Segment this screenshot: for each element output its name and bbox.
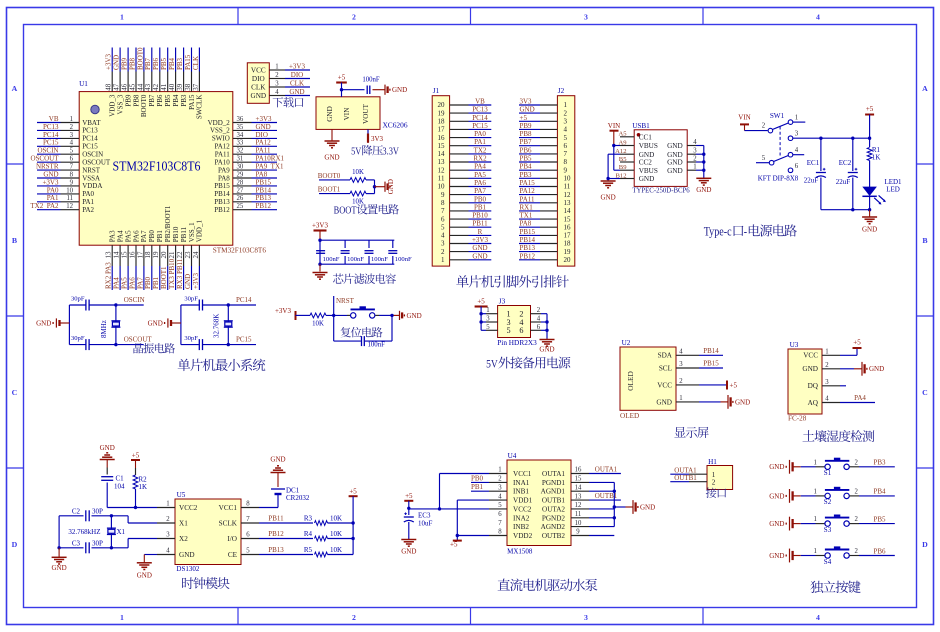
svg-text:OSCIN: OSCIN — [37, 147, 58, 155]
svg-text:2: 2 — [275, 72, 279, 79]
svg-text:GND: GND — [802, 365, 818, 373]
svg-text:VBAT: VBAT — [82, 119, 101, 127]
svg-text:U4: U4 — [508, 452, 517, 460]
svg-text:1: 1 — [275, 64, 278, 71]
svg-text:U5: U5 — [177, 491, 186, 499]
svg-text:13: 13 — [575, 493, 582, 500]
svg-text:PA4: PA4 — [116, 230, 124, 242]
svg-text:PB1: PB1 — [471, 483, 484, 491]
svg-text:2: 2 — [679, 378, 683, 385]
svg-text:3: 3 — [825, 379, 829, 386]
svg-text:PC14: PC14 — [82, 135, 98, 143]
svg-text:3: 3 — [166, 532, 170, 539]
svg-text:3: 3 — [564, 118, 568, 126]
svg-text:GND: GND — [769, 463, 784, 471]
svg-text:30P: 30P — [92, 508, 103, 516]
svg-text:10K: 10K — [330, 546, 342, 554]
svg-text:U2: U2 — [622, 339, 631, 347]
svg-text:H1: H1 — [708, 458, 717, 466]
svg-text:12: 12 — [564, 191, 572, 199]
svg-text:A: A — [12, 84, 18, 93]
svg-text:PA8: PA8 — [520, 220, 532, 228]
svg-text:35: 35 — [237, 124, 244, 131]
svg-text:8: 8 — [564, 158, 568, 166]
svg-text:GND: GND — [769, 520, 784, 528]
svg-text:18: 18 — [564, 240, 572, 248]
svg-text:PB1: PB1 — [474, 203, 487, 211]
svg-text:2: 2 — [762, 123, 766, 130]
svg-text:PA3: PA3 — [109, 230, 117, 242]
svg-text:+3V3: +3V3 — [192, 272, 200, 289]
svg-text:USB1: USB1 — [632, 122, 650, 130]
svg-text:2: 2 — [854, 489, 858, 496]
svg-text:2: 2 — [825, 362, 829, 369]
svg-text:PA15: PA15 — [188, 94, 196, 110]
svg-text:AGND1: AGND1 — [541, 488, 566, 496]
svg-text:CC1: CC1 — [639, 133, 653, 141]
svg-text:2: 2 — [352, 613, 356, 622]
svg-text:TX2 PA2: TX2 PA2 — [30, 202, 59, 210]
svg-text:GND: GND — [769, 552, 784, 560]
svg-text:PB4: PB4 — [168, 57, 176, 70]
svg-text:16: 16 — [438, 134, 446, 142]
svg-text:PB6: PB6 — [520, 146, 533, 154]
svg-text:VBUS: VBUS — [639, 142, 658, 150]
svg-text:18: 18 — [438, 118, 446, 126]
svg-text:PA2: PA2 — [82, 206, 94, 214]
svg-text:PB13: PB13 — [214, 198, 230, 206]
svg-text:GND: GND — [407, 312, 422, 320]
svg-text:PB8: PB8 — [128, 57, 136, 70]
svg-text:S4: S4 — [824, 558, 832, 566]
svg-text:GND: GND — [869, 365, 884, 373]
svg-text:C1: C1 — [116, 475, 125, 483]
svg-text:EC2: EC2 — [839, 159, 852, 167]
svg-text:4: 4 — [693, 139, 697, 146]
svg-text:2: 2 — [854, 459, 858, 466]
svg-text:GND: GND — [137, 572, 152, 580]
svg-text:11: 11 — [438, 175, 445, 183]
svg-text:17: 17 — [438, 126, 446, 134]
svg-text:XC6206: XC6206 — [382, 121, 407, 130]
svg-text:2: 2 — [564, 109, 568, 117]
svg-text:15: 15 — [575, 476, 582, 483]
svg-text:4: 4 — [564, 126, 568, 134]
svg-text:1: 1 — [70, 116, 73, 123]
svg-text:GND: GND — [326, 106, 334, 122]
svg-text:S1: S1 — [824, 469, 832, 477]
svg-text:104: 104 — [114, 483, 125, 491]
svg-text:10K: 10K — [352, 169, 364, 176]
svg-text:4: 4 — [498, 493, 502, 500]
svg-text:PA8: PA8 — [256, 170, 268, 178]
svg-text:PB3: PB3 — [176, 57, 184, 70]
svg-text:30P: 30P — [92, 540, 103, 548]
svg-text:VCC2: VCC2 — [179, 504, 198, 512]
svg-text:Pin HDR2X3: Pin HDR2X3 — [497, 338, 537, 347]
svg-text:8: 8 — [246, 501, 250, 508]
svg-text:B: B — [922, 236, 927, 245]
svg-text:6: 6 — [795, 163, 799, 170]
svg-text:PB14: PB14 — [520, 236, 536, 244]
svg-text:GND: GND — [289, 88, 304, 96]
svg-text:11: 11 — [66, 195, 73, 202]
svg-text:GND: GND — [324, 154, 339, 162]
svg-text:100nF: 100nF — [368, 341, 386, 348]
svg-text:30: 30 — [237, 164, 244, 171]
svg-text:DIO: DIO — [291, 71, 303, 79]
svg-text:PC14: PC14 — [43, 131, 59, 139]
svg-text:30pF: 30pF — [71, 335, 85, 342]
svg-text:INA2: INA2 — [513, 514, 530, 522]
svg-text:PB5: PB5 — [520, 155, 533, 163]
svg-text:VIN: VIN — [738, 114, 750, 122]
svg-text:PB12: PB12 — [268, 530, 284, 538]
svg-text:1: 1 — [120, 13, 124, 22]
svg-text:PB11: PB11 — [180, 226, 188, 242]
svg-text:2: 2 — [854, 548, 858, 555]
svg-text:INA1: INA1 — [513, 479, 530, 487]
svg-text:39: 39 — [176, 83, 184, 91]
svg-text:PB14: PB14 — [214, 190, 230, 198]
svg-text:RX1: RX1 — [520, 203, 534, 211]
svg-text:PB6: PB6 — [873, 547, 886, 555]
svg-text:VSS_3: VSS_3 — [116, 94, 124, 114]
svg-text:+5: +5 — [520, 114, 528, 122]
svg-text:25: 25 — [237, 203, 244, 210]
svg-text:PB12: PB12 — [256, 202, 272, 210]
svg-text:GND: GND — [862, 226, 877, 234]
svg-text:BOOT1: BOOT1 — [318, 186, 341, 194]
svg-text:PA0: PA0 — [82, 190, 94, 198]
svg-text:37: 37 — [192, 83, 200, 91]
svg-text:VCC: VCC — [657, 381, 672, 389]
svg-text:12: 12 — [575, 502, 582, 509]
svg-text:GND: GND — [270, 456, 285, 464]
svg-text:PA4: PA4 — [113, 277, 121, 289]
svg-text:1: 1 — [813, 459, 816, 466]
svg-text:26: 26 — [237, 195, 244, 202]
svg-text:PB10: PB10 — [172, 226, 180, 242]
svg-text:PA8: PA8 — [218, 174, 230, 182]
svg-text:CLK: CLK — [290, 80, 304, 88]
svg-text:SCLK: SCLK — [219, 520, 238, 528]
svg-text:S3: S3 — [824, 526, 832, 534]
svg-text:GND: GND — [539, 346, 554, 354]
svg-text:47: 47 — [113, 83, 121, 91]
svg-text:PA11: PA11 — [256, 147, 272, 155]
svg-text:VCC: VCC — [251, 66, 266, 74]
svg-text:GND: GND — [639, 175, 655, 183]
svg-text:32: 32 — [237, 148, 244, 155]
svg-text:R3: R3 — [304, 515, 313, 523]
svg-text:PB5: PB5 — [160, 57, 168, 70]
svg-text:5: 5 — [564, 134, 568, 142]
svg-text:GND: GND — [179, 551, 195, 559]
svg-text:PC14: PC14 — [472, 114, 488, 122]
svg-text:30pF: 30pF — [71, 296, 85, 303]
svg-text:29: 29 — [237, 171, 244, 178]
svg-text:+3V3: +3V3 — [42, 178, 59, 186]
svg-text:PB10: PB10 — [472, 212, 488, 220]
svg-text:PA5: PA5 — [124, 230, 132, 242]
svg-text:GND: GND — [667, 167, 683, 175]
svg-text:GND: GND — [36, 319, 51, 327]
svg-text:GND: GND — [667, 159, 683, 167]
svg-text:PC15: PC15 — [43, 139, 59, 147]
svg-text:1: 1 — [693, 164, 696, 171]
svg-text:9: 9 — [70, 179, 74, 186]
svg-text:GND: GND — [387, 179, 395, 194]
svg-text:1: 1 — [120, 613, 124, 622]
svg-text:7: 7 — [498, 520, 502, 527]
svg-text:CE: CE — [228, 551, 238, 559]
svg-text:5: 5 — [486, 324, 490, 331]
svg-text:3: 3 — [275, 81, 279, 88]
svg-text:OSCOUT: OSCOUT — [30, 155, 59, 163]
svg-text:PGND1: PGND1 — [542, 479, 566, 487]
svg-text:20: 20 — [438, 101, 446, 109]
svg-text:+3V3: +3V3 — [256, 115, 273, 123]
svg-text:OLED: OLED — [626, 371, 635, 390]
svg-text:PB11: PB11 — [472, 220, 488, 228]
svg-text:7: 7 — [441, 207, 445, 215]
svg-text:27: 27 — [237, 187, 244, 194]
svg-text:J3: J3 — [499, 298, 506, 306]
svg-text:VBUS: VBUS — [639, 167, 658, 175]
svg-text:4: 4 — [70, 140, 74, 147]
svg-text:VDD_1: VDD_1 — [196, 220, 204, 243]
svg-text:OSCIN: OSCIN — [82, 151, 103, 159]
svg-text:1: 1 — [166, 501, 169, 508]
svg-text:5V: 5V — [486, 357, 498, 371]
svg-text:10K: 10K — [330, 515, 342, 523]
svg-text:VCC2: VCC2 — [513, 505, 532, 513]
svg-text:4: 4 — [816, 13, 820, 22]
svg-text:VSS_2: VSS_2 — [210, 127, 230, 135]
svg-text:100nF: 100nF — [347, 256, 364, 263]
svg-text:PA11: PA11 — [520, 195, 536, 203]
svg-text:PC15: PC15 — [472, 122, 488, 130]
svg-text:J1: J1 — [433, 87, 440, 95]
svg-text:5: 5 — [498, 502, 502, 509]
svg-text:+5: +5 — [132, 452, 140, 460]
svg-text:PA4: PA4 — [854, 394, 866, 402]
svg-text:PA7: PA7 — [136, 277, 144, 289]
svg-text:VCC: VCC — [803, 352, 818, 360]
svg-text:TX3 PB10: TX3 PB10 — [168, 258, 176, 289]
svg-text:2: 2 — [352, 13, 356, 22]
svg-text:PC15: PC15 — [82, 143, 98, 151]
svg-text:PA9: PA9 — [218, 166, 230, 174]
svg-text:5: 5 — [246, 548, 250, 555]
svg-text:4: 4 — [537, 316, 541, 323]
svg-text:DQ: DQ — [808, 382, 819, 390]
svg-text:48: 48 — [105, 83, 113, 91]
svg-text:VCC1: VCC1 — [513, 470, 532, 478]
svg-text:+5: +5 — [853, 339, 861, 347]
svg-text:A5: A5 — [618, 131, 627, 138]
svg-text:22: 22 — [176, 251, 184, 259]
svg-text:1: 1 — [813, 516, 816, 523]
svg-text:PC14: PC14 — [236, 296, 252, 304]
svg-text:3V3: 3V3 — [371, 135, 384, 143]
svg-text:13: 13 — [438, 158, 446, 166]
svg-text:19: 19 — [438, 109, 446, 117]
svg-text:VSSA: VSSA — [82, 174, 100, 182]
svg-text:C2: C2 — [72, 508, 81, 516]
svg-text:PB15: PB15 — [703, 360, 719, 368]
svg-text:3: 3 — [693, 148, 697, 155]
svg-text:PA4: PA4 — [474, 163, 486, 171]
svg-text:PB14: PB14 — [703, 347, 719, 355]
svg-text:15: 15 — [121, 251, 129, 259]
svg-text:PB6: PB6 — [156, 94, 164, 107]
svg-text:1: 1 — [498, 467, 501, 474]
svg-text:BOOT0: BOOT0 — [136, 47, 144, 70]
svg-text:GND: GND — [735, 398, 750, 406]
svg-text:10: 10 — [564, 175, 572, 183]
svg-text:24: 24 — [192, 251, 200, 259]
svg-text:13: 13 — [105, 251, 113, 259]
svg-text:VDD2: VDD2 — [513, 532, 533, 540]
svg-text:VSS_1: VSS_1 — [188, 222, 196, 242]
svg-text:2: 2 — [166, 516, 170, 523]
svg-text:3: 3 — [441, 240, 445, 248]
svg-text:10: 10 — [66, 187, 73, 194]
svg-text:D: D — [12, 540, 18, 549]
svg-text:9: 9 — [441, 191, 445, 199]
svg-text:14: 14 — [564, 207, 572, 215]
svg-text:BOOT: BOOT — [334, 206, 357, 217]
svg-text:3: 3 — [486, 316, 490, 323]
svg-text:2: 2 — [441, 248, 445, 256]
svg-text:VDDA: VDDA — [82, 182, 102, 190]
svg-text:PA9 TX1: PA9 TX1 — [256, 163, 285, 171]
svg-text:GND: GND — [184, 274, 192, 289]
svg-text:3V3: 3V3 — [520, 98, 533, 106]
svg-text:+5: +5 — [866, 105, 874, 113]
svg-text:PA12: PA12 — [214, 143, 230, 151]
svg-text:11: 11 — [564, 183, 571, 191]
svg-text:BOOT1: BOOT1 — [160, 266, 168, 289]
svg-text:DIO: DIO — [256, 131, 268, 139]
svg-text:OLED: OLED — [620, 412, 639, 420]
svg-text:PA10: PA10 — [214, 159, 230, 167]
svg-text:100nF: 100nF — [362, 77, 380, 84]
svg-text:MX1508: MX1508 — [507, 548, 533, 556]
svg-text:PA5: PA5 — [121, 277, 129, 289]
svg-text:X1: X1 — [117, 528, 126, 536]
svg-text:+3V3: +3V3 — [275, 307, 292, 315]
svg-text:VIN: VIN — [343, 107, 351, 121]
svg-text:3: 3 — [795, 131, 799, 138]
svg-text:B: B — [12, 236, 17, 245]
svg-text:7: 7 — [564, 150, 568, 158]
svg-text:TX2: TX2 — [474, 146, 487, 154]
svg-text:9: 9 — [564, 166, 568, 174]
svg-text:100nF: 100nF — [371, 256, 388, 263]
svg-text:PB1: PB1 — [152, 276, 160, 289]
svg-text:U1: U1 — [79, 80, 88, 88]
svg-text:2: 2 — [537, 307, 541, 314]
svg-text:7: 7 — [246, 516, 250, 523]
svg-text:43: 43 — [144, 83, 152, 91]
svg-text:33: 33 — [237, 140, 244, 147]
svg-text:STM32F103C8T6: STM32F103C8T6 — [113, 159, 201, 174]
svg-text:5: 5 — [762, 155, 766, 162]
svg-text:-: - — [744, 225, 747, 239]
svg-text:PA12: PA12 — [256, 139, 272, 147]
svg-text:8: 8 — [441, 199, 445, 207]
svg-text:+3V3: +3V3 — [472, 236, 489, 244]
svg-text:PA15: PA15 — [520, 179, 536, 187]
svg-text:LED: LED — [886, 186, 900, 194]
svg-text:X2: X2 — [179, 535, 188, 543]
svg-text:5: 5 — [70, 148, 74, 155]
svg-text:1: 1 — [564, 101, 568, 109]
svg-text:GND: GND — [667, 142, 683, 150]
svg-text:B9: B9 — [619, 164, 627, 171]
svg-text:GND: GND — [472, 252, 487, 260]
svg-text:+3V3: +3V3 — [289, 63, 306, 71]
svg-text:+5: +5 — [349, 488, 357, 496]
svg-text:PB9: PB9 — [121, 57, 129, 70]
svg-text:19: 19 — [564, 248, 572, 256]
svg-text:6: 6 — [537, 324, 541, 331]
svg-text:VCC1: VCC1 — [219, 504, 238, 512]
svg-text:16: 16 — [128, 251, 136, 259]
svg-text:BOOT0: BOOT0 — [140, 94, 148, 117]
svg-text:5: 5 — [441, 223, 445, 231]
svg-text:GND: GND — [401, 548, 416, 556]
svg-text:PA12: PA12 — [520, 187, 536, 195]
svg-text:12: 12 — [438, 166, 446, 174]
svg-text:RX3 PB11: RX3 PB11 — [176, 258, 184, 289]
svg-text:SWCLK: SWCLK — [196, 95, 204, 120]
svg-text:S2: S2 — [824, 498, 832, 506]
svg-text:1: 1 — [825, 349, 828, 356]
svg-text:R5: R5 — [304, 546, 313, 554]
svg-text:3: 3 — [70, 132, 74, 139]
svg-text:PB4: PB4 — [172, 94, 180, 107]
svg-text:BOOT0: BOOT0 — [318, 172, 341, 180]
svg-text:13: 13 — [564, 199, 572, 207]
svg-text:PB0: PB0 — [474, 195, 487, 203]
svg-text:CR2032: CR2032 — [286, 494, 310, 502]
svg-text:PC13: PC13 — [43, 123, 59, 131]
svg-text:2: 2 — [712, 479, 716, 487]
svg-text:GND: GND — [639, 151, 655, 159]
svg-text:1: 1 — [795, 115, 798, 122]
svg-text:1: 1 — [486, 307, 489, 314]
svg-text:PB9: PB9 — [520, 122, 533, 130]
svg-text:PA1: PA1 — [474, 138, 486, 146]
svg-text:PB5: PB5 — [164, 94, 172, 107]
svg-text:1: 1 — [679, 395, 682, 402]
svg-text:OUTA1: OUTA1 — [542, 470, 565, 478]
svg-text:OUTA2: OUTA2 — [542, 505, 565, 513]
svg-text:+5: +5 — [405, 492, 413, 500]
svg-text:SWIO: SWIO — [212, 135, 230, 143]
svg-text:KFT DIP-8X8: KFT DIP-8X8 — [758, 175, 799, 183]
svg-text:42: 42 — [152, 83, 160, 91]
svg-text:PC13: PC13 — [472, 106, 488, 114]
svg-text:4: 4 — [166, 548, 170, 555]
svg-text:CLK: CLK — [251, 83, 266, 91]
svg-text:+3V3: +3V3 — [105, 53, 113, 70]
svg-text:10: 10 — [438, 183, 446, 191]
